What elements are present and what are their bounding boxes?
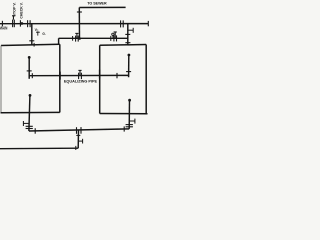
wire bottom header H5 bbox=[29, 129, 129, 131]
paper background bbox=[0, 0, 150, 150]
fitting T ticks at waste branch on H5 bbox=[77, 127, 82, 134]
fitting tick on waste drop bbox=[76, 134, 80, 136]
svg-text:G.: G. bbox=[42, 32, 45, 36]
fitting tick on H3 left bbox=[72, 36, 74, 41]
svg-text:MAIN: MAIN bbox=[0, 25, 7, 30]
valve on H3 right with stem bbox=[114, 32, 117, 41]
valve on left drain (two bars) bbox=[26, 126, 33, 128]
wire sewer riser bbox=[78, 8, 80, 39]
fitting union tick on riser bbox=[77, 11, 82, 13]
fitting end tick left main bbox=[1, 21, 3, 27]
svg-text:TO SEWER: TO SEWER bbox=[87, 1, 106, 6]
wire left tank feed drop bbox=[31, 24, 33, 46]
fitting small circle cock on H3 bbox=[112, 33, 114, 35]
wire right inlet riser inside tank bbox=[128, 55, 130, 77]
fitting tick on equalizing pipe in right tank bbox=[116, 73, 118, 78]
node riser joins H3 (dot) bbox=[78, 37, 81, 40]
fitting capped washout stub right bbox=[129, 119, 135, 124]
valve gate valve on main before right tank drop bbox=[121, 20, 124, 27]
wire bottom waste line to left bbox=[0, 147, 78, 150]
tank right outline bbox=[100, 44, 147, 47]
fitting right wall crossing tick bbox=[99, 70, 101, 79]
fitting capped washout stub left bbox=[23, 121, 29, 126]
wire cross-connect pipe H3 bbox=[59, 37, 128, 39]
wire equalizing pipe bbox=[29, 74, 128, 76]
fitting union tick on left drop bbox=[29, 40, 34, 42]
wire right tank feed drop bbox=[127, 24, 129, 46]
wire right drain drop bbox=[128, 100, 130, 129]
fitting tick on H3 right bbox=[110, 36, 112, 41]
fitting union tick on right drop upper bbox=[125, 33, 130, 35]
valve stop valve on main bbox=[12, 16, 15, 27]
fitting union tick on right inlet riser bbox=[126, 71, 131, 73]
fitting capped stub on waste drop bbox=[78, 139, 82, 144]
svg-text:EQUALIZING PIPE: EQUALIZING PIPE bbox=[64, 79, 98, 83]
fitting end tick right main bbox=[147, 21, 149, 26]
node left drain mouth dot bbox=[29, 94, 32, 97]
wire left drain drop bbox=[29, 95, 30, 131]
valve on H3 left with stem bbox=[75, 33, 78, 41]
valve gate valve on main before left tank drop bbox=[28, 20, 31, 27]
fitting capped air stub on right drop bbox=[128, 28, 133, 33]
tank left outline bbox=[1, 44, 60, 45]
fitting tick on H5 near left elbow bbox=[34, 128, 36, 134]
fitting union tick on right drop lower bbox=[125, 42, 130, 44]
node right inlet mouth dot bbox=[127, 54, 130, 57]
wire waste drop from H5 bbox=[77, 130, 79, 148]
svg-text:CHECK V.: CHECK V. bbox=[18, 2, 23, 18]
wire main supply pipe H-main bbox=[0, 23, 148, 25]
fitting tick on equalizing pipe near left elbow bbox=[31, 73, 33, 78]
valve check valve on main bbox=[19, 20, 21, 26]
node left inlet mouth dot bbox=[28, 56, 31, 59]
fitting roof tick right of left drop bbox=[33, 43, 35, 47]
gauge T mark under V1 bbox=[36, 32, 40, 35]
fitting tick on H5 near right elbow bbox=[123, 126, 125, 131]
wire left inlet drop inside tank bbox=[28, 57, 30, 78]
valve equalizing pipe valve bbox=[78, 70, 81, 79]
valve on right drain (two bars) bbox=[126, 125, 133, 127]
fitting left wall crossing tick bbox=[59, 72, 61, 80]
wire H3 stub down into left tank roof bbox=[58, 38, 60, 45]
node right drain mouth dot bbox=[128, 99, 131, 102]
fitting tick on bottom waste line bbox=[75, 146, 77, 150]
svg-text:STOP V.: STOP V. bbox=[11, 2, 16, 16]
wire sewer line to right bbox=[79, 6, 125, 8]
fitting union tick on left inlet drop bbox=[27, 70, 32, 72]
